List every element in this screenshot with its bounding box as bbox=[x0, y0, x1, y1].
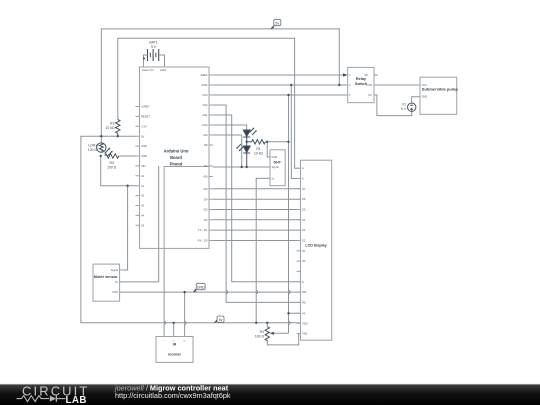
svg-text:D4: D4 bbox=[204, 197, 208, 201]
wire D12 down to LCD RS bbox=[213, 105, 301, 302]
wire IR receiver right pin to GND bus bbox=[184, 292, 186, 336]
svg-text:NC: NC bbox=[369, 94, 373, 97]
wire D13 branch down to LCD V0 bbox=[289, 95, 301, 333]
svg-text:D7: D7 bbox=[204, 164, 208, 168]
svg-text:Pinout: Pinout bbox=[170, 162, 183, 167]
wire 5V: arduino 5V pin left then down to bottom 5V bus to LCD VDD bbox=[81, 136, 301, 323]
svg-text:9 V: 9 V bbox=[401, 107, 407, 111]
svg-text:D6: D6 bbox=[302, 197, 306, 201]
wire relay COM to pump VCC bbox=[374, 84, 420, 86]
svg-text:Board: Board bbox=[170, 155, 182, 160]
svg-text:2: 2 bbox=[349, 84, 351, 87]
svg-text:5V: 5V bbox=[141, 134, 144, 138]
resistor R2 bbox=[116, 120, 120, 137]
svg-text:VDD: VDD bbox=[302, 321, 308, 325]
wire DHT GND branch from R1 net bbox=[267, 142, 270, 157]
svg-text:D13: D13 bbox=[203, 93, 208, 97]
resistor R3 bbox=[105, 154, 119, 158]
svg-text:D0: D0 bbox=[302, 259, 306, 263]
moter sensor module bbox=[93, 264, 124, 301]
relay switch U2 bbox=[348, 67, 374, 102]
svg-text:GND: GND bbox=[272, 155, 278, 159]
wire D11 down to LCD E bbox=[213, 115, 301, 282]
arrowhead into relay pin1 bbox=[343, 73, 348, 76]
svg-text:R4: R4 bbox=[260, 330, 264, 334]
svg-text:D8: D8 bbox=[204, 143, 208, 147]
op-amp U1 arduino uno board pinout bbox=[136, 63, 214, 248]
svg-text:D7: D7 bbox=[302, 187, 306, 191]
wire DHT 5v pin down to 5V bus bbox=[256, 178, 270, 322]
photoresistor LDR1 bbox=[97, 143, 113, 157]
wire R1 right to V0 vertical bbox=[266, 141, 289, 143]
svg-text:RS: RS bbox=[302, 300, 306, 304]
led LED1 bbox=[243, 128, 257, 142]
svg-text:Signal: Signal bbox=[272, 165, 280, 169]
wire IR receiver left pin to GND bus bbox=[163, 248, 165, 336]
svg-text:D2: D2 bbox=[302, 239, 306, 243]
wire ladder D1 to LCD D3 bbox=[213, 229, 301, 231]
svg-text:VCC: VCC bbox=[422, 83, 428, 87]
svg-text:Submersible pump: Submersible pump bbox=[422, 87, 459, 92]
svg-text:s: s bbox=[184, 340, 186, 343]
wire net from R2 top to LCD pin A bbox=[118, 38, 301, 168]
LCD display module bbox=[297, 160, 332, 340]
svg-text:100 Ω: 100 Ω bbox=[255, 335, 265, 339]
svg-text:R2: R2 bbox=[110, 122, 114, 126]
svg-text:5v: 5v bbox=[115, 280, 118, 284]
wire ladder D3 to LCD D5 bbox=[213, 209, 301, 211]
svg-text:COM: COM bbox=[366, 84, 372, 87]
wire D13 to relay pin3 bbox=[213, 94, 348, 96]
svg-text:V0: V0 bbox=[302, 311, 306, 315]
svg-text:RW: RW bbox=[302, 290, 307, 294]
svg-text:AREF: AREF bbox=[200, 73, 208, 77]
submersible pump M1 bbox=[420, 77, 457, 114]
svg-text:E: E bbox=[302, 280, 304, 284]
svg-text:-: - bbox=[163, 340, 164, 343]
resistor R1 bbox=[247, 140, 266, 144]
svg-text:GND: GND bbox=[202, 83, 208, 87]
svg-text:~D6: ~D6 bbox=[202, 175, 208, 179]
wire R4 top to 5V bus bbox=[266, 323, 268, 327]
wire AREF to relay pin1 bbox=[213, 74, 348, 76]
svg-text:D12: D12 bbox=[203, 103, 208, 107]
svg-text:A1: A1 bbox=[141, 184, 145, 188]
svg-text:100 Ω: 100 Ω bbox=[107, 165, 117, 169]
wire R4 bottom to LCD VSS bbox=[267, 334, 300, 345]
svg-text:10 kΩ: 10 kΩ bbox=[106, 126, 115, 130]
svg-text:DHT: DHT bbox=[274, 161, 282, 165]
wire relay NO stub bbox=[374, 74, 378, 76]
svg-text:A2: A2 bbox=[141, 194, 145, 198]
wire R4 wiper to V0 net bbox=[272, 332, 289, 334]
wire net 9v top loop: LDR1 top to relay pin2 bbox=[101, 29, 339, 143]
svg-text:D5: D5 bbox=[302, 208, 306, 212]
svg-text:TX→D1: TX→D1 bbox=[198, 228, 208, 232]
wire GND bus: moter sensor GND to LCD RW bbox=[120, 291, 301, 293]
wire ladder D5 to LCD D7 bbox=[213, 188, 301, 190]
svg-text:Moter sensor: Moter sensor bbox=[94, 275, 118, 279]
svg-text:R3: R3 bbox=[110, 161, 114, 165]
svg-text:http://circuitlab.com/cwx9m3af: http://circuitlab.com/cwx9m3afqt6pk bbox=[115, 391, 231, 400]
svg-text:VIN: VIN bbox=[141, 164, 146, 168]
svg-text:GND: GND bbox=[141, 144, 147, 148]
svg-text:GND: GND bbox=[422, 95, 428, 99]
node flag GND bbox=[194, 283, 206, 292]
node flag 5v bottom bbox=[215, 316, 225, 323]
svg-text:D2: D2 bbox=[204, 218, 208, 222]
svg-text:3: 3 bbox=[349, 94, 351, 97]
svg-text:VSS: VSS bbox=[302, 332, 307, 336]
svg-text:R1: R1 bbox=[256, 147, 260, 151]
svg-text:9 V: 9 V bbox=[151, 45, 157, 49]
svg-text:~D10: ~D10 bbox=[201, 123, 208, 127]
svg-text:~D5: ~D5 bbox=[202, 187, 208, 191]
svg-text:GND: GND bbox=[141, 154, 147, 158]
wire hop arcs at crossings bbox=[164, 291, 290, 325]
svg-text:LCD Display: LCD Display bbox=[305, 244, 326, 248]
wire pump GND to V1 plus bbox=[412, 97, 420, 103]
svg-text:100 Ω: 100 Ω bbox=[88, 148, 98, 152]
wire D9 jog down to D7 net bbox=[213, 135, 242, 167]
svg-text:receiver: receiver bbox=[168, 353, 182, 357]
svg-text:LDR1: LDR1 bbox=[88, 143, 97, 147]
wire moter sensor 5v up under arduino bbox=[120, 166, 159, 282]
svg-text:IOREF: IOREF bbox=[141, 105, 150, 109]
svg-text:V1: V1 bbox=[402, 103, 406, 107]
wire ladder D0 to LCD D2 bbox=[213, 240, 301, 242]
svg-text:A4: A4 bbox=[141, 214, 145, 218]
wire D7 to DHT signal with LED2 bottom bbox=[213, 166, 270, 168]
svg-text:GND: GND bbox=[160, 68, 166, 72]
led LED2 bbox=[237, 142, 251, 167]
svg-text:NO: NO bbox=[364, 74, 368, 77]
voltage source V1 bbox=[408, 103, 416, 111]
svg-text:A0: A0 bbox=[141, 174, 145, 178]
svg-text:~D11: ~D11 bbox=[201, 113, 208, 117]
IR receiver module bbox=[156, 337, 193, 363]
svg-text:5v: 5v bbox=[275, 21, 279, 25]
svg-text:3.3V: 3.3V bbox=[141, 124, 147, 128]
svg-text:Signal: Signal bbox=[111, 268, 119, 272]
svg-text:Power 5V: Power 5V bbox=[142, 68, 154, 72]
svg-text:10 kΩ: 10 kΩ bbox=[254, 152, 263, 156]
wire GND branch down to LCD pin K bbox=[291, 85, 300, 179]
svg-text:GND: GND bbox=[197, 285, 205, 289]
wire LDR node down to A1 pin bbox=[101, 156, 136, 186]
svg-text:RX←D0: RX←D0 bbox=[198, 239, 208, 243]
svg-text:A3: A3 bbox=[141, 204, 145, 208]
svg-text:~D9: ~D9 bbox=[202, 133, 208, 137]
wire relay pin3 right to V1 minus bbox=[374, 95, 412, 116]
wire GND pin to relay pin2 bbox=[213, 84, 348, 86]
svg-text:5v: 5v bbox=[272, 176, 275, 180]
svg-text:D3: D3 bbox=[302, 228, 306, 232]
svg-text:5v: 5v bbox=[219, 318, 223, 322]
node flag 5v top bbox=[271, 19, 281, 29]
svg-text:1: 1 bbox=[349, 74, 351, 77]
svg-text:Arduino Uno: Arduino Uno bbox=[164, 149, 189, 154]
sensor DHT1 bbox=[270, 150, 285, 186]
svg-text:D4: D4 bbox=[302, 218, 306, 222]
wire ladder D4 to LCD D6 bbox=[213, 198, 301, 200]
svg-text:A5: A5 bbox=[141, 223, 145, 227]
wire R3 right to GND pin bbox=[119, 155, 136, 157]
wire ladder D2 to LCD D4 bbox=[213, 219, 301, 221]
svg-text:LAB: LAB bbox=[66, 395, 87, 405]
svg-text:IR: IR bbox=[173, 342, 177, 346]
potentiometer R4 bbox=[265, 327, 274, 341]
svg-text:~D3: ~D3 bbox=[202, 208, 208, 212]
wire IR receiver mid pin to 5V bus bbox=[173, 323, 175, 337]
svg-text:D1: D1 bbox=[302, 249, 306, 253]
wire D10 to LED1 anode bbox=[213, 125, 247, 130]
battery BAT1 bbox=[143, 49, 165, 63]
svg-text:GND: GND bbox=[112, 290, 118, 294]
svg-text:Relay: Relay bbox=[356, 77, 367, 81]
svg-text:RESET: RESET bbox=[141, 115, 150, 119]
svg-text:K: K bbox=[302, 177, 304, 181]
wire moter sensor signal to A1 bbox=[120, 186, 128, 270]
svg-text:A: A bbox=[302, 166, 304, 170]
